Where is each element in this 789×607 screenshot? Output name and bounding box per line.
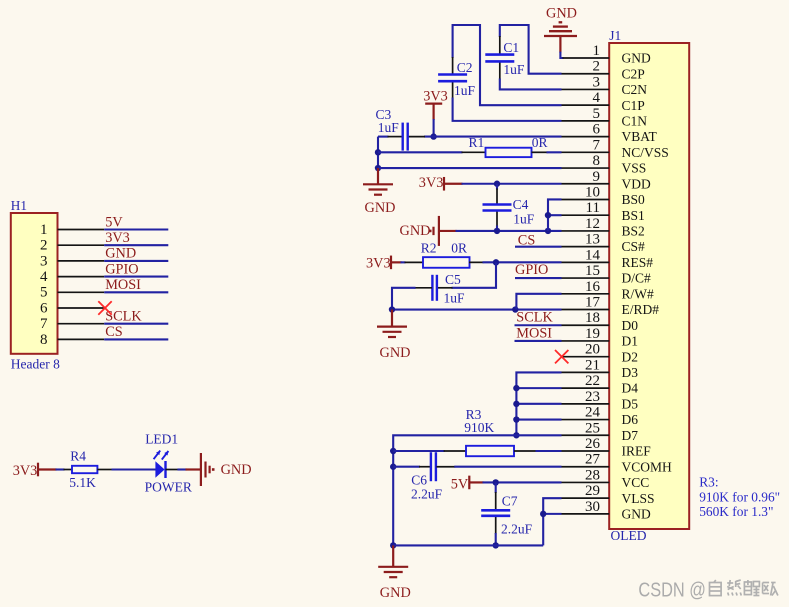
svg-text:SCLK: SCLK [516,310,553,326]
svg-text:C6: C6 [411,472,427,487]
svg-text:12: 12 [585,216,600,232]
svg-text:3V3: 3V3 [13,463,38,479]
svg-text:POWER: POWER [145,479,192,494]
svg-text:8: 8 [40,332,48,348]
svg-text:GPIO: GPIO [105,261,138,277]
svg-text:H1: H1 [11,198,27,213]
svg-text:24: 24 [585,405,601,421]
svg-text:1uF: 1uF [503,62,525,77]
svg-text:27: 27 [585,452,601,468]
svg-text:D7: D7 [622,428,639,443]
svg-text:16: 16 [585,279,601,295]
svg-text:2.2uF: 2.2uF [411,486,443,501]
svg-text:RES#: RES# [622,255,654,270]
svg-text:910K for 0.96": 910K for 0.96" [699,489,780,504]
svg-text:GND: GND [546,5,577,21]
svg-text:VCOMH: VCOMH [622,459,673,474]
svg-text:25: 25 [585,420,600,436]
svg-text:1uF: 1uF [454,83,476,98]
svg-text:2.2uF: 2.2uF [501,522,533,537]
svg-text:3V3: 3V3 [105,230,130,246]
svg-text:D0: D0 [622,318,639,333]
svg-text:D2: D2 [622,349,639,364]
svg-text:1: 1 [593,43,601,59]
svg-text:8: 8 [593,153,601,169]
svg-text:CS: CS [105,324,123,340]
svg-text:22: 22 [585,373,600,389]
svg-text:OLED: OLED [611,528,647,543]
svg-text:910K: 910K [464,420,494,435]
svg-text:1uF: 1uF [378,120,400,135]
svg-text:3V3: 3V3 [423,88,448,104]
svg-text:D6: D6 [622,412,639,427]
svg-text:MOSI: MOSI [105,277,141,293]
svg-text:28: 28 [585,467,600,483]
svg-text:VCC: VCC [622,475,650,490]
svg-text:CS#: CS# [622,239,646,254]
svg-text:0R: 0R [532,135,548,150]
svg-text:GND: GND [400,223,431,239]
svg-text:IREF: IREF [622,444,652,459]
svg-text:5: 5 [593,106,601,122]
svg-text:C2P: C2P [622,66,645,81]
svg-text:10: 10 [585,184,600,200]
svg-text:0R: 0R [451,241,467,256]
svg-text:VDD: VDD [622,176,651,191]
svg-text:C4: C4 [513,197,529,212]
svg-text:5.1K: 5.1K [69,475,96,490]
svg-text:D/C#: D/C# [622,271,652,286]
svg-text:15: 15 [585,263,600,279]
svg-text:CSDN @: CSDN @ [638,579,706,601]
svg-text:2: 2 [593,59,601,75]
svg-text:7: 7 [593,137,601,153]
svg-text:MOSI: MOSI [516,326,552,342]
svg-text:2: 2 [40,238,48,254]
svg-text:R4: R4 [70,448,86,463]
svg-text:C7: C7 [502,494,518,509]
svg-text:26: 26 [585,436,601,452]
svg-text:6: 6 [40,300,48,316]
svg-text:VSS: VSS [622,161,647,176]
svg-text:5V: 5V [105,214,123,230]
svg-text:R3:: R3: [699,474,718,489]
svg-text:CS: CS [518,233,536,249]
svg-text:J1: J1 [609,28,621,43]
svg-text:4: 4 [40,269,48,285]
svg-text:E/RD#: E/RD# [622,302,660,317]
svg-text:D5: D5 [622,396,639,411]
svg-text:D4: D4 [622,381,639,396]
svg-text:1: 1 [40,222,48,238]
svg-text:14: 14 [585,247,601,263]
svg-text:GND: GND [622,51,651,66]
svg-text:21: 21 [585,357,600,373]
svg-text:VBAT: VBAT [622,129,658,144]
svg-text:R2: R2 [421,241,437,256]
svg-text:GPIO: GPIO [515,262,548,278]
svg-text:C5: C5 [445,272,461,287]
svg-text:30: 30 [585,499,600,515]
svg-text:29: 29 [585,483,600,499]
svg-text:LED1: LED1 [145,432,178,447]
svg-text:SCLK: SCLK [105,309,142,325]
svg-text:VLSS: VLSS [622,491,655,506]
svg-text:GND: GND [380,345,411,361]
svg-text:3V3: 3V3 [419,175,444,191]
svg-text:20: 20 [585,342,600,358]
svg-text:NC/VSS: NC/VSS [622,145,669,160]
svg-text:Header 8: Header 8 [11,357,60,372]
svg-text:BS1: BS1 [622,208,645,223]
svg-text:4: 4 [593,90,601,106]
svg-text:GND: GND [221,462,252,478]
svg-text:6: 6 [593,122,601,138]
svg-text:GND: GND [380,585,411,601]
svg-text:BS0: BS0 [622,192,646,207]
svg-text:19: 19 [585,326,600,342]
svg-text:13: 13 [585,232,600,248]
svg-text:GND: GND [622,506,651,521]
svg-text:1uF: 1uF [513,212,535,227]
svg-text:3V3: 3V3 [366,255,391,271]
svg-text:R/W#: R/W# [622,286,654,301]
svg-text:C1: C1 [503,40,519,55]
svg-text:D1: D1 [622,334,639,349]
svg-text:BS2: BS2 [622,224,645,239]
svg-text:C2: C2 [457,60,473,75]
svg-text:GND: GND [105,246,136,262]
svg-text:C1P: C1P [622,98,645,113]
svg-text:R1: R1 [469,135,485,150]
svg-text:3: 3 [40,253,48,269]
svg-text:D3: D3 [622,365,639,380]
svg-text:7: 7 [40,316,48,332]
svg-text:23: 23 [585,389,600,405]
svg-text:9: 9 [593,169,601,185]
svg-text:1uF: 1uF [444,290,466,305]
svg-text:GND: GND [365,200,396,216]
svg-text:C1N: C1N [622,113,648,128]
svg-text:11: 11 [586,200,600,216]
svg-text:17: 17 [585,295,601,311]
svg-text:3: 3 [593,74,601,90]
svg-text:560K for 1.3": 560K for 1.3" [699,504,773,519]
svg-text:C2N: C2N [622,82,648,97]
svg-text:18: 18 [585,310,600,326]
svg-text:5V: 5V [451,476,469,492]
svg-text:5: 5 [40,285,48,301]
